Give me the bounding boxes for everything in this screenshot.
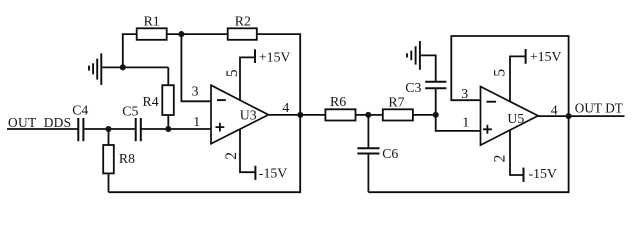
svg-text:-15V: -15V [259,165,287,180]
pin 2 wire U5 [510,130,524,175]
wire bottom rail right section [368,116,568,192]
node J4 [297,112,303,118]
svg-text:-15V: -15V [529,166,557,181]
svg-text:C3: C3 [405,80,421,95]
resistor R8 [108,129,110,145]
svg-text:C4: C4 [72,103,88,118]
svg-text:5: 5 [224,69,241,77]
wire ground junction up to R1 [123,34,137,67]
power -15V (U5) [523,168,525,182]
svg-text:OUT DDS: OUT DDS [8,115,71,130]
svg-text:+15V: +15V [530,49,562,64]
node J3 [178,31,184,37]
svg-text:5: 5 [491,69,508,77]
svg-text:3: 3 [192,83,199,98]
wire C4 to node J1 [84,128,135,130]
svg-text:1: 1 [193,114,200,129]
ground (right) [407,41,420,70]
svg-text:4: 4 [282,100,289,115]
ground (left) [89,53,101,85]
wire J6 step down to pin 1 of U5 [436,115,481,131]
op-amp U5 [481,87,539,146]
resistor R2 [228,28,257,40]
svg-text:1: 1 [462,115,469,130]
resistor R7 [383,109,413,120]
wire R1 to R2 [167,33,228,35]
node J5 [365,112,371,118]
svg-text:+15V: +15V [259,49,291,64]
wire ground to R4 top [101,66,168,68]
svg-text:R8: R8 [119,151,135,166]
wire R2 right down to J4 and bottom rail to R8 [109,34,301,192]
wire R6 to R7 [356,114,383,116]
svg-text:2: 2 [223,152,240,160]
wire C5 to pin 1 of U3 [142,128,212,130]
wire R7 to node J6 [413,114,436,116]
svg-text:OUT DT: OUT DT [575,101,623,116]
node J1 [105,126,111,132]
pin 2 wire U3 [240,129,255,172]
resistor R1 [137,28,167,40]
svg-text:R1: R1 [144,13,160,28]
capacitor C3 [435,89,437,115]
wire U5 output [538,115,625,117]
svg-text:R6: R6 [330,94,346,109]
svg-text:R4: R4 [143,94,159,109]
svg-text:R2: R2 [235,13,251,28]
svg-text:C6: C6 [382,146,398,161]
feedback loop wire U5 [451,36,568,116]
resistor R6 [325,109,355,120]
capacitor C4 [78,118,83,141]
power +15V (U5) [525,49,527,64]
node J6 [433,112,439,118]
node J2 [165,126,171,132]
svg-text:C5: C5 [122,103,138,118]
wire J3 down to pin 3 of U3 [181,34,211,101]
pin 5 wire U5 [510,56,526,101]
svg-text:3: 3 [461,86,468,101]
op-amp U3 [211,85,268,144]
node J7 [566,113,572,119]
svg-text:2: 2 [492,155,509,163]
wire input to C4 [7,128,78,130]
power +15V (U3) [254,49,256,63]
node ground junction [120,64,126,70]
svg-text:U3: U3 [240,108,257,123]
svg-text:U5: U5 [507,111,524,126]
capacitor C5 [136,118,141,141]
power -15V (U3) [254,166,256,180]
resistor R4 [167,115,169,129]
capacitor C6 [367,115,369,148]
wire U3 output to R6 [268,114,325,116]
pin 5 wire U3 [240,57,255,100]
svg-text:R7: R7 [388,94,404,109]
